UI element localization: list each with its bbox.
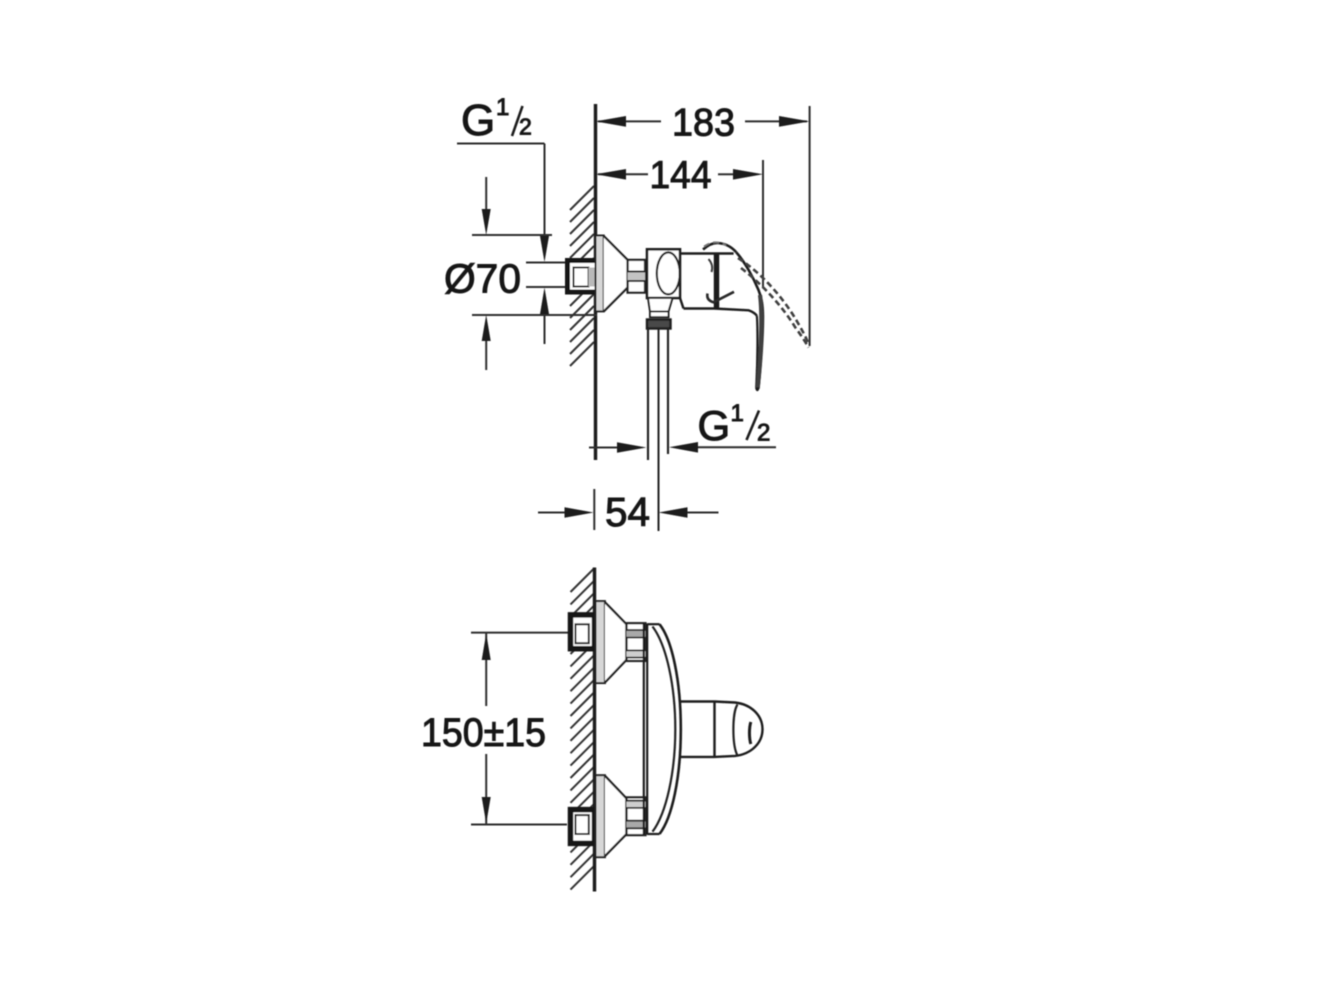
lower inlet square (front view) [571,810,595,844]
dimension D70 [472,177,597,370]
escutcheon flange (side view) [596,236,604,312]
svg-text:G: G [698,402,731,449]
wall line (front view) [593,568,596,892]
body mounting plate (front view) [644,624,660,835]
outlet collar [650,312,669,318]
svg-text:1: 1 [496,94,509,121]
handle neck (front view) [680,702,714,757]
phantom hood curl [704,242,726,246]
svg-text:G: G [461,96,495,145]
body end band [714,254,720,309]
valve body cartridge section (side view) [647,249,680,298]
svg-text:2: 2 [519,114,532,140]
leader G1/2 top [457,144,545,345]
lower flange strip (front view) [596,775,605,857]
svg-text:150±15: 150±15 [421,711,546,755]
wall hatching (side view) [570,186,594,366]
svg-text:2: 2 [757,420,770,447]
handle knob (front view) [715,702,763,757]
under-body step [648,298,673,312]
lever tail inner edge [756,316,757,388]
lever hood inner mark [709,259,713,272]
label G 1/2 (top) [461,94,532,145]
dimension 150±15 [471,633,569,825]
wall line (side view) [594,104,597,460]
knob face arc [733,705,737,756]
lever outer edge (side view) [736,252,763,387]
lever tail shade [758,295,762,389]
dimension 144 [598,160,763,287]
outlet nut (dark band) [647,320,671,329]
valve body mid and bottom (side view) [680,254,757,316]
svg-text:1: 1 [731,400,744,427]
body dome inner arc (front view) [653,627,676,832]
svg-text:183: 183 [672,102,735,145]
wall hatching (front view) [571,568,595,890]
svg-text:144: 144 [650,154,712,197]
upper inlet square (front view) [571,615,595,649]
upper connection nut (front view) [627,623,646,661]
lever tail tip [756,388,758,391]
phantom lever position (dashed) [738,258,809,348]
svg-text:Ø70: Ø70 [444,256,521,302]
svg-text:54: 54 [605,489,650,535]
upper cone (front view) [605,602,627,682]
dimension 183 [598,106,810,346]
lever hood (side view) [703,243,736,252]
label G 1/2 (outlet) [698,400,771,449]
outlet pipe [648,329,668,532]
lower cone (front view) [605,776,627,856]
lower connection nut (front view) [627,797,646,835]
connection nut (side view) [628,260,645,293]
leader G1/2 outlet [589,446,776,448]
knob tick [749,722,750,744]
upper flange strip (front view) [596,601,605,683]
escutcheon cone (side view) [604,236,628,311]
body dome outer arc (front view) [660,624,681,834]
union square nut (side view) [568,261,600,293]
cartridge dome ellipse [657,252,680,294]
dimension 54 [538,489,719,530]
phantom check mark [707,292,734,303]
